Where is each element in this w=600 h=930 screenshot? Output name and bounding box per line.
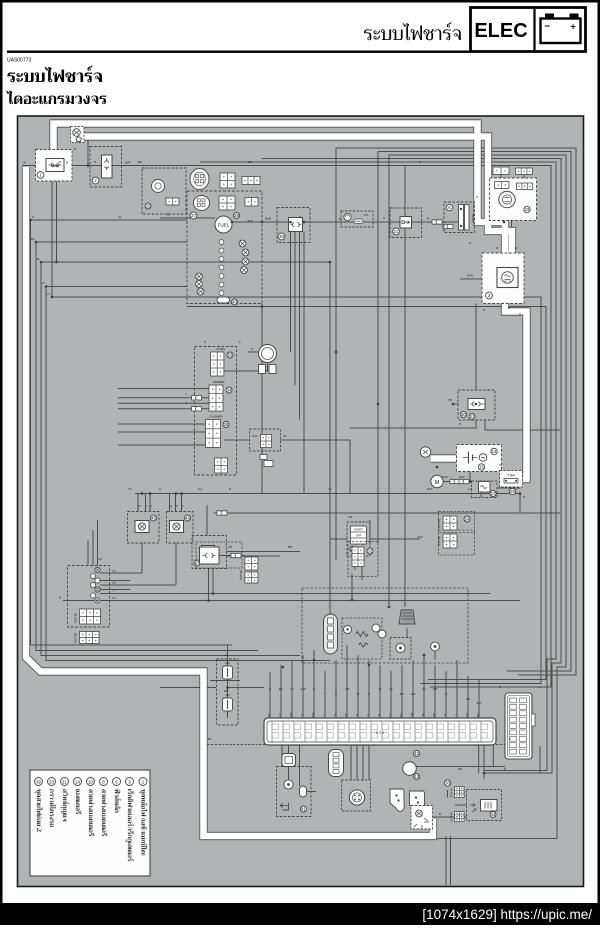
wire bus mid 5 xyxy=(118,444,206,446)
svg-text:R: R xyxy=(445,692,447,696)
legend item 6 xyxy=(113,778,122,813)
svg-text:G: G xyxy=(159,487,161,491)
wire headlight top leads xyxy=(501,175,524,184)
speed sensor number xyxy=(145,203,151,209)
svg-text:–: – xyxy=(545,21,551,32)
svg-text:B: B xyxy=(74,147,76,151)
wire main switch to fuse xyxy=(411,221,459,223)
start area box 1 xyxy=(439,512,475,533)
svg-text:R: R xyxy=(269,687,271,691)
svg-text:B/R: B/R xyxy=(125,161,131,165)
wire ecu dash row dashed xyxy=(200,744,505,746)
fuel grid coupler 2 xyxy=(219,196,235,210)
svg-text:OFF: OFF xyxy=(356,534,362,538)
svg-text:Dg: Dg xyxy=(169,504,173,508)
wire bus top right 3 xyxy=(389,155,566,839)
wire ground joint lead xyxy=(433,816,467,818)
starter motor xyxy=(431,475,443,487)
svg-text:14: 14 xyxy=(492,449,497,454)
svg-text:O: O xyxy=(145,504,147,508)
svg-text:L/B: L/B xyxy=(466,697,470,701)
svg-text:R/W: R/W xyxy=(442,475,448,479)
highlighted charging circuit (white) xyxy=(26,124,527,837)
main fuse box xyxy=(444,202,475,233)
joint coupler box xyxy=(277,208,310,243)
fuel float number xyxy=(232,299,238,305)
wire relay row xyxy=(224,440,350,494)
svg-text:Ch: Ch xyxy=(128,487,132,491)
legend item 14 xyxy=(74,778,82,815)
svg-text:41: 41 xyxy=(301,807,306,812)
diode box xyxy=(458,390,495,420)
svg-text:39: 39 xyxy=(279,234,284,239)
wire ecu top drops xyxy=(270,645,479,718)
crank sensor trapezoid xyxy=(399,610,415,624)
highlight wire: ground return top run xyxy=(84,137,512,271)
svg-text:37: 37 xyxy=(191,213,196,218)
legend item 10 xyxy=(87,778,95,836)
left switch grid xyxy=(80,609,101,624)
svg-text:Y/B: Y/B xyxy=(345,687,349,691)
flasher light left bulb xyxy=(135,521,149,533)
wire starter motor row xyxy=(437,481,472,483)
starter relay box xyxy=(472,481,498,498)
wire stator B lead left xyxy=(22,165,46,167)
flasher light left box xyxy=(128,512,160,544)
battery minus circle xyxy=(479,454,487,462)
capacitor number xyxy=(490,812,496,818)
svg-text:46: 46 xyxy=(185,516,190,521)
svg-text:Br/B: Br/B xyxy=(247,219,252,223)
battery icon xyxy=(541,14,581,44)
svg-text:L/B: L/B xyxy=(228,545,232,549)
svg-text:P: P xyxy=(251,347,253,351)
svg-text:7.5A: 7.5A xyxy=(507,474,515,478)
svg-text:Sb: Sb xyxy=(283,434,287,438)
vertical capsule connector xyxy=(329,750,344,777)
title line 1: ระบบไฟชาร์จ xyxy=(7,66,102,82)
svg-text:W/R: W/R xyxy=(467,274,474,278)
rectifier number xyxy=(486,292,493,299)
fuel round coupler 2 xyxy=(194,196,210,211)
svg-text:(BLACK): (BLACK) xyxy=(74,613,78,623)
svg-text:40: 40 xyxy=(232,300,237,305)
speed sensor box xyxy=(142,168,186,214)
cdi arrow xyxy=(280,804,288,808)
svg-text:B: B xyxy=(167,213,169,217)
svg-text:34: 34 xyxy=(227,388,232,393)
wire switch row 4 xyxy=(100,589,130,591)
right multi coupler xyxy=(505,693,535,759)
fuel left lamps xyxy=(196,273,203,280)
wire right sw rows xyxy=(227,552,301,557)
svg-text:15: 15 xyxy=(479,465,484,470)
svg-text:UAS00773: UAS00773 xyxy=(7,58,31,64)
fuel gauge lamps xyxy=(239,240,246,247)
starter relay number xyxy=(490,491,496,497)
coupler 2 number xyxy=(92,177,99,184)
wire ground joint drop xyxy=(87,136,89,166)
legend item 3 xyxy=(126,778,135,862)
svg-text:36: 36 xyxy=(445,781,450,786)
battery fuse number xyxy=(509,488,515,494)
fuel small coupler 2 xyxy=(245,198,258,207)
svg-text:10: 10 xyxy=(88,779,93,784)
svg-text:20: 20 xyxy=(146,204,151,209)
dimmer bullets xyxy=(192,396,202,400)
wire starter relay right xyxy=(497,487,520,489)
speed sensor grid xyxy=(166,198,179,205)
right switch bullets xyxy=(217,511,227,515)
svg-text:23: 23 xyxy=(49,779,54,784)
svg-text:R/B: R/B xyxy=(224,689,229,693)
spark plug group box xyxy=(348,542,378,577)
svg-text:E C U: E C U xyxy=(376,731,385,735)
main fuse element xyxy=(459,205,470,231)
highlight wire: stator to rectifier (top run) xyxy=(54,124,506,271)
wire right sw down xyxy=(209,569,214,601)
main switch bullets xyxy=(432,220,442,224)
svg-text:33: 33 xyxy=(228,353,233,358)
svg-text:R: R xyxy=(499,463,501,467)
AC magneto stator unit box xyxy=(36,150,73,182)
svg-text:B/Y: B/Y xyxy=(401,713,403,717)
fuel unit dashed box xyxy=(187,191,262,304)
ignition coupler grids xyxy=(245,557,258,570)
svg-text:YB: YB xyxy=(448,398,452,402)
svg-text:+: + xyxy=(571,22,576,32)
legend item 21 xyxy=(61,778,70,822)
ground joint bottom box xyxy=(411,806,433,830)
wire bottom mid bus xyxy=(160,681,240,688)
svg-text:L/Y: L/Y xyxy=(468,487,472,491)
wire rectifier left lead W xyxy=(460,278,482,280)
wire switch row 1 xyxy=(100,572,142,574)
wire bottom exit pair xyxy=(446,836,451,885)
wire stator B down 2 xyxy=(56,181,58,262)
svg-text:L/Y: L/Y xyxy=(290,687,294,691)
spark plug block xyxy=(352,547,364,567)
wire bus mid right 1 xyxy=(52,297,541,684)
flasher switch block xyxy=(206,420,221,448)
starter bullets xyxy=(450,479,460,483)
rectifier regulator box xyxy=(482,253,524,304)
legend item 23 xyxy=(48,778,57,827)
sensor coil xyxy=(359,643,367,647)
diode connector xyxy=(468,399,485,410)
flasher relay body xyxy=(261,435,272,448)
svg-text:P: P xyxy=(368,692,370,696)
header ELEC box xyxy=(471,8,586,52)
wire below ecu drops xyxy=(282,745,369,786)
flasher light left number xyxy=(151,515,157,521)
svg-text:G/B: G/B xyxy=(434,713,436,717)
svg-text:G/Y: G/Y xyxy=(112,596,117,600)
svg-text:R: R xyxy=(483,308,485,312)
main switch number xyxy=(393,228,400,235)
svg-text:R/W: R/W xyxy=(417,535,423,539)
wire bus top right 2 xyxy=(262,159,561,774)
wire fuse col horiz xyxy=(228,687,265,689)
title line 2: ไดอะแกรมวงจร xyxy=(6,91,106,104)
fuel top small coupler xyxy=(242,177,260,185)
wire switch row G long xyxy=(63,600,520,602)
svg-text:R: R xyxy=(496,246,498,250)
svg-text:38: 38 xyxy=(234,213,239,218)
svg-text:B: B xyxy=(504,767,506,771)
wire headlight drops xyxy=(504,208,512,253)
sensor circle right xyxy=(396,643,405,652)
svg-text:B/W: B/W xyxy=(460,475,465,479)
svg-text:B: B xyxy=(204,340,206,344)
svg-text:(BLACK): (BLACK) xyxy=(450,812,453,822)
flasher number xyxy=(223,422,229,428)
flasher relay box xyxy=(250,429,281,451)
capacitor arrows xyxy=(470,804,476,813)
svg-text:R: R xyxy=(225,653,227,657)
svg-text:ELEC: ELEC xyxy=(474,20,527,42)
svg-text:G: G xyxy=(150,504,152,508)
wire coupler box 2 xyxy=(90,147,122,188)
wire flasher rows xyxy=(118,424,206,432)
engine sensor group box xyxy=(302,588,468,663)
battery box xyxy=(457,445,502,472)
svg-text:B/R: B/R xyxy=(138,160,142,164)
wire bus left 3 xyxy=(41,262,300,656)
wire bus top right 1 xyxy=(200,162,556,771)
highlight wire: rectifier to fuse to battery xyxy=(505,288,527,479)
main fuse number xyxy=(446,204,452,210)
svg-text:FLASHER: FLASHER xyxy=(210,415,223,419)
wire ign coil row xyxy=(219,555,245,557)
wire bottom right row xyxy=(403,766,506,768)
left switch lamp marks xyxy=(95,567,100,572)
sensor box right xyxy=(390,638,411,660)
wire front flasher bus xyxy=(135,493,520,495)
svg-text:Br: Br xyxy=(37,257,40,261)
wire bus mid right 2 xyxy=(57,262,331,614)
main switch box xyxy=(390,208,422,238)
svg-text:L/B: L/B xyxy=(467,713,469,717)
svg-text:G/B: G/B xyxy=(433,687,438,691)
fuel pump number xyxy=(234,213,240,219)
header rule xyxy=(7,51,470,53)
headlight unit box xyxy=(490,178,537,221)
horn switch block xyxy=(211,352,224,376)
fuel sender terminals xyxy=(219,240,224,245)
fuse column box xyxy=(217,659,239,725)
svg-text:R: R xyxy=(476,195,478,199)
svg-text:B/R: B/R xyxy=(288,545,292,549)
svg-text:L/Y: L/Y xyxy=(46,292,50,296)
svg-text:G/R: G/R xyxy=(458,767,463,771)
battery number 15 xyxy=(478,464,484,470)
svg-text:21: 21 xyxy=(62,779,67,784)
wire rect lead to corner xyxy=(350,420,476,428)
svg-text:FUEL: FUEL xyxy=(218,223,230,228)
svg-text:G: G xyxy=(181,504,183,508)
rectifier body xyxy=(497,268,518,288)
svg-text:R: R xyxy=(32,215,34,219)
svg-text:G: G xyxy=(335,692,337,696)
svg-text:Y: Y xyxy=(185,392,187,396)
svg-text:Br: Br xyxy=(175,504,178,508)
wire flasher outs xyxy=(142,543,176,585)
svg-text:42: 42 xyxy=(414,751,419,756)
svg-text:39: 39 xyxy=(36,779,41,784)
fuel unit number xyxy=(190,212,197,219)
fuel sender round coupler top xyxy=(190,169,209,190)
svg-text:B/L: B/L xyxy=(279,687,283,691)
wire fuel box bottom drop xyxy=(261,304,263,494)
idle motor xyxy=(403,762,417,776)
svg-text:31: 31 xyxy=(470,414,475,419)
joint coupler number xyxy=(278,233,285,240)
battery fuse box 7.5A xyxy=(500,471,523,488)
wire stator B down 1 xyxy=(51,181,53,297)
svg-text:B: B xyxy=(459,422,461,426)
right switch box xyxy=(192,536,227,569)
svg-text:B/W: B/W xyxy=(253,434,258,438)
wire ecu bottom drops xyxy=(479,745,494,779)
highlight wire: frame ground return (left/bottom run) xyxy=(26,167,433,836)
wire bottom left links xyxy=(282,792,316,811)
dimmer switch block xyxy=(209,385,223,411)
wire bus left 4 xyxy=(46,287,330,661)
svg-text:24: 24 xyxy=(465,517,470,522)
wire bus left 1 xyxy=(31,220,233,645)
starter relay body xyxy=(479,482,491,493)
bottom black bar xyxy=(0,903,600,925)
sensor circle far xyxy=(431,642,440,651)
svg-text:14: 14 xyxy=(75,779,80,784)
wire horn feed xyxy=(224,352,268,371)
start area number xyxy=(464,516,470,522)
wire sensor links xyxy=(352,166,435,661)
wire rectifier down lead xyxy=(475,304,477,391)
svg-text:27: 27 xyxy=(491,491,496,496)
svg-text:Ch: Ch xyxy=(112,569,116,573)
svg-text:30: 30 xyxy=(461,412,466,417)
svg-text:32: 32 xyxy=(368,549,373,554)
sensor group box xyxy=(342,618,382,659)
flasher light right number xyxy=(185,515,191,521)
legend item 8 xyxy=(100,778,108,836)
ignition coil group box xyxy=(196,542,242,568)
svg-text:DIMMER: DIMMER xyxy=(213,380,224,384)
svg-text:L/B: L/B xyxy=(98,557,102,561)
horn xyxy=(259,345,277,374)
ground joint symbol xyxy=(73,129,81,137)
wire bus left 2 xyxy=(36,242,258,651)
wire coupler row right bus xyxy=(112,166,551,688)
svg-text:Dg: Dg xyxy=(112,581,116,585)
svg-text:R: R xyxy=(339,217,341,221)
legend item 1 xyxy=(139,778,147,856)
speed sensor body xyxy=(152,180,165,193)
svg-text:B/W: B/W xyxy=(428,487,433,491)
wire coupler drops xyxy=(291,242,305,494)
left switch contacts xyxy=(95,567,100,572)
svg-text:Y: Y xyxy=(456,692,458,696)
start switch box xyxy=(347,522,370,556)
start area box 2 xyxy=(439,530,475,555)
wire fuel pump feed xyxy=(160,217,215,219)
svg-text:Br: Br xyxy=(356,714,359,717)
wire coupler box verticals xyxy=(291,232,305,243)
svg-text:M: M xyxy=(435,480,440,486)
cdi capsule xyxy=(300,786,307,797)
svg-text:B: B xyxy=(229,487,231,491)
svg-text:START: START xyxy=(354,528,363,532)
svg-text:(BLACK): (BLACK) xyxy=(437,536,440,546)
svg-text:Ch: Ch xyxy=(137,504,141,508)
idle motor numbers xyxy=(414,751,420,757)
stator number 1 xyxy=(37,172,44,179)
highlight wire: battery to starter ground xyxy=(431,455,456,462)
svg-text:L/Y: L/Y xyxy=(280,713,282,717)
flasher light right box xyxy=(167,512,194,544)
svg-text:21: 21 xyxy=(394,229,399,234)
svg-text:R: R xyxy=(519,312,521,316)
o2 sensor xyxy=(349,790,364,805)
svg-text:G/W: G/W xyxy=(300,687,306,691)
svg-text:Sb: Sb xyxy=(422,687,426,691)
spark plug number xyxy=(367,548,373,554)
bottom right circle num xyxy=(444,780,450,786)
sensor circles xyxy=(344,624,387,638)
svg-text:[1074x1629] https://upic.me/: [1074x1629] https://upic.me/ xyxy=(422,907,592,922)
svg-text:G: G xyxy=(335,714,337,716)
right switch number xyxy=(194,560,200,566)
cdi number xyxy=(301,806,307,812)
svg-text:Y/B: Y/B xyxy=(346,713,348,717)
joint coupler connector xyxy=(289,218,303,232)
svg-text:44: 44 xyxy=(491,812,496,817)
right switch bulb xyxy=(202,546,215,559)
capacitor body xyxy=(481,800,498,812)
capacitor box xyxy=(467,790,502,821)
fuse 2 xyxy=(223,698,233,711)
wire junction dots xyxy=(29,164,521,774)
svg-text:L/W: L/W xyxy=(411,692,416,696)
svg-text:G: G xyxy=(185,401,187,405)
fuse 1 xyxy=(223,666,233,679)
ECU main connector bar xyxy=(264,718,496,745)
cdi circle xyxy=(284,780,293,789)
svg-text:Br: Br xyxy=(357,692,360,696)
rounded connector small xyxy=(282,754,296,767)
wire switch row Y long xyxy=(100,593,490,595)
battery cell symbol xyxy=(463,452,477,464)
svg-text:B: B xyxy=(94,160,96,164)
svg-text:B: B xyxy=(66,161,68,165)
switch cluster box xyxy=(195,347,237,476)
battery ground joint xyxy=(420,447,430,457)
wire start sw lead xyxy=(330,538,420,540)
inline fuse element xyxy=(354,219,363,224)
o2 sensor box xyxy=(342,780,371,811)
legend item 39 xyxy=(35,778,43,832)
svg-text:(BLACK): (BLACK) xyxy=(450,788,453,798)
svg-text:Br/B: Br/B xyxy=(265,217,271,221)
legend box xyxy=(30,770,150,876)
svg-text:B: B xyxy=(523,495,525,499)
wire bottom right vert xyxy=(484,746,540,773)
svg-text:Dg: Dg xyxy=(198,487,202,491)
headlight number xyxy=(524,206,530,212)
svg-text:W/Y: W/Y xyxy=(477,701,482,705)
